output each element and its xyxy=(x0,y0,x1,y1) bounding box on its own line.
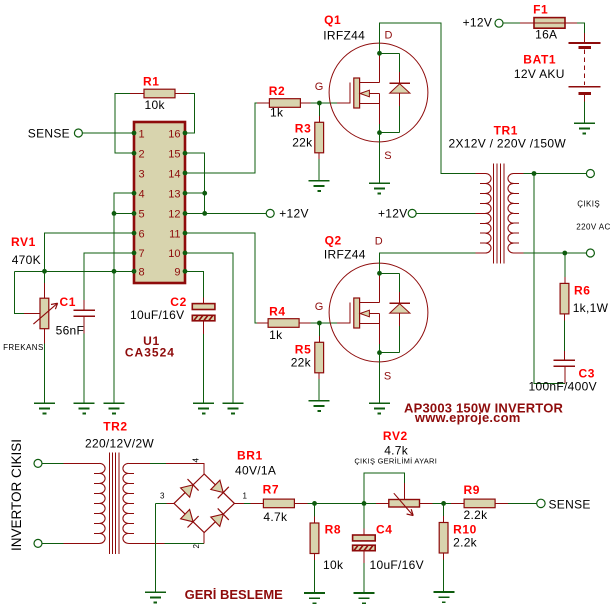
svg-text:C3: C3 xyxy=(579,367,596,381)
svg-text:11: 11 xyxy=(169,228,180,240)
svg-text:R8: R8 xyxy=(325,523,342,537)
svg-text:220V AC: 220V AC xyxy=(576,223,610,232)
svg-text:CA3524: CA3524 xyxy=(125,346,175,360)
svg-text:100nF/400V: 100nF/400V xyxy=(529,380,597,394)
svg-text:14: 14 xyxy=(168,168,180,180)
svg-text:40V/1A: 40V/1A xyxy=(235,464,276,478)
svg-text:+12V: +12V xyxy=(378,207,408,221)
svg-text:C4: C4 xyxy=(376,523,393,537)
svg-text:SENSE: SENSE xyxy=(549,498,591,512)
svg-text:10uF/16V: 10uF/16V xyxy=(370,558,424,572)
svg-text:3: 3 xyxy=(160,492,165,501)
svg-text:GERİ BESLEME: GERİ BESLEME xyxy=(185,587,284,602)
svg-text:TR2: TR2 xyxy=(103,420,127,434)
svg-text:6: 6 xyxy=(139,228,145,240)
svg-text:1: 1 xyxy=(139,128,145,140)
svg-text:220/12V/2W: 220/12V/2W xyxy=(85,437,154,451)
svg-text:2.2k: 2.2k xyxy=(464,508,489,522)
svg-text:22k: 22k xyxy=(291,356,312,370)
svg-text:10: 10 xyxy=(168,248,180,260)
svg-text:C2: C2 xyxy=(170,295,187,309)
svg-text:R6: R6 xyxy=(574,284,591,298)
svg-text:FREKANS: FREKANS xyxy=(3,343,44,352)
svg-text:BAT1: BAT1 xyxy=(523,53,556,67)
svg-text:1k,1W: 1k,1W xyxy=(573,301,609,315)
svg-text:16A: 16A xyxy=(535,28,557,42)
svg-text:F1: F1 xyxy=(533,3,548,17)
svg-text:56nF: 56nF xyxy=(56,324,85,338)
svg-text:12V AKU: 12V AKU xyxy=(514,67,565,81)
svg-text:4: 4 xyxy=(192,458,201,463)
svg-text:R7: R7 xyxy=(263,483,280,497)
svg-text:R3: R3 xyxy=(295,121,312,135)
svg-text:7: 7 xyxy=(139,248,145,260)
svg-text:8: 8 xyxy=(139,267,145,279)
svg-text:1k: 1k xyxy=(270,106,284,120)
svg-text:G: G xyxy=(315,301,324,313)
svg-text:10k: 10k xyxy=(145,98,166,112)
svg-text:RV2: RV2 xyxy=(383,429,408,443)
svg-text:C1: C1 xyxy=(60,295,77,309)
svg-text:TR1: TR1 xyxy=(494,124,518,138)
svg-text:9: 9 xyxy=(174,267,180,279)
svg-text:Q1: Q1 xyxy=(324,13,341,27)
svg-text:IRFZ44: IRFZ44 xyxy=(324,248,366,262)
svg-text:12: 12 xyxy=(168,209,180,221)
svg-text:D: D xyxy=(385,30,393,42)
svg-text:BR1: BR1 xyxy=(237,449,263,463)
svg-text:INVERTOR CIKISI: INVERTOR CIKISI xyxy=(9,439,24,551)
svg-text:Q2: Q2 xyxy=(325,233,342,247)
svg-text:ÇIKIŞ: ÇIKIŞ xyxy=(577,200,600,209)
svg-text:G: G xyxy=(315,81,324,93)
svg-text:R4: R4 xyxy=(269,305,286,319)
svg-text:D: D xyxy=(375,236,383,248)
svg-text:S: S xyxy=(384,371,391,383)
svg-text:R2: R2 xyxy=(269,84,286,98)
svg-text:www.eproje.com: www.eproje.com xyxy=(414,410,521,425)
svg-text:5: 5 xyxy=(139,209,145,221)
svg-text:13: 13 xyxy=(168,189,180,201)
svg-text:4.7k: 4.7k xyxy=(263,510,288,524)
svg-text:+12V: +12V xyxy=(463,16,493,30)
svg-text:2.2k: 2.2k xyxy=(453,536,478,550)
svg-text:10k: 10k xyxy=(323,558,344,572)
svg-text:15: 15 xyxy=(168,149,180,161)
svg-text:+12V: +12V xyxy=(279,207,309,221)
svg-text:RV1: RV1 xyxy=(11,235,36,249)
svg-text:1: 1 xyxy=(243,491,248,500)
svg-text:ÇIKIŞ GERİLİMİ AYARI: ÇIKIŞ GERİLİMİ AYARI xyxy=(354,456,437,465)
svg-text:R1: R1 xyxy=(143,75,160,89)
svg-text:10uF/16V: 10uF/16V xyxy=(130,308,184,322)
svg-text:16: 16 xyxy=(168,128,180,140)
svg-text:2: 2 xyxy=(192,544,201,549)
svg-text:R5: R5 xyxy=(295,343,312,357)
svg-text:22k: 22k xyxy=(292,136,313,150)
svg-text:470K: 470K xyxy=(12,253,41,267)
svg-text:1k: 1k xyxy=(269,328,283,342)
svg-text:4: 4 xyxy=(139,189,145,201)
svg-text:2X12V / 220V /150W: 2X12V / 220V /150W xyxy=(449,137,567,151)
svg-text:S: S xyxy=(384,150,391,162)
svg-text:R10: R10 xyxy=(453,523,477,537)
svg-text:2: 2 xyxy=(139,149,145,161)
svg-text:3: 3 xyxy=(139,168,145,180)
svg-text:R9: R9 xyxy=(464,483,481,497)
svg-text:IRFZ44: IRFZ44 xyxy=(323,29,365,43)
svg-text:SENSE: SENSE xyxy=(28,127,70,141)
